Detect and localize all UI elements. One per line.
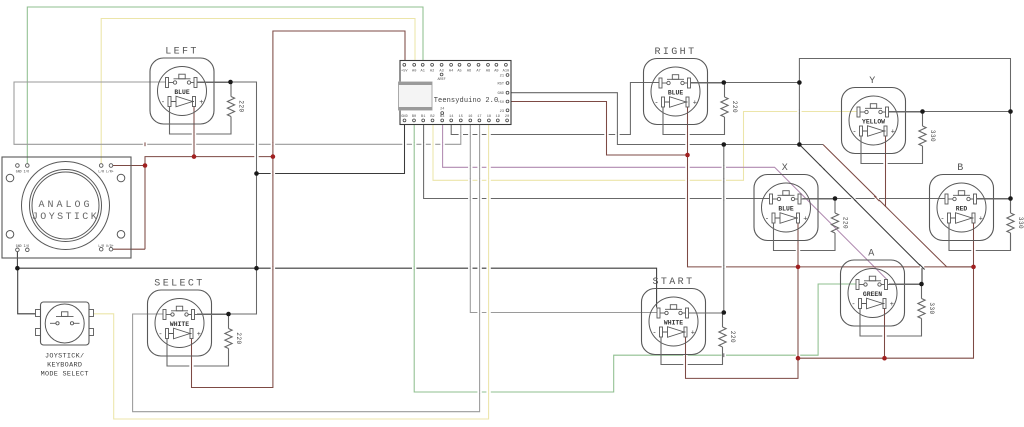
svg-text:START: START — [652, 277, 694, 288]
svg-text:220: 220 — [842, 217, 849, 229]
svg-text:BLUE: BLUE — [668, 90, 684, 97]
svg-text:330: 330 — [929, 130, 936, 142]
svg-text:220: 220 — [731, 101, 738, 113]
svg-text:330: 330 — [928, 302, 935, 314]
svg-text:A5: A5 — [457, 70, 461, 74]
svg-text:+: + — [979, 215, 983, 223]
svg-text:21: 21 — [500, 75, 504, 79]
svg-text:16: 16 — [468, 115, 472, 119]
svg-text:14: 14 — [449, 115, 453, 119]
svg-text:+: + — [890, 301, 894, 309]
svg-text:L/R L/R+: L/R L/R+ — [98, 170, 113, 174]
svg-text:X: X — [782, 163, 790, 174]
svg-text:+: + — [197, 331, 201, 339]
svg-text:A: A — [868, 249, 876, 260]
svg-text:B1: B1 — [421, 115, 425, 119]
svg-text:-: - — [158, 331, 162, 339]
svg-text:+: + — [691, 329, 695, 337]
svg-text:B2: B2 — [430, 115, 434, 119]
svg-text:GND: GND — [498, 92, 504, 96]
svg-text:GND: GND — [401, 115, 407, 119]
svg-text:B: B — [957, 163, 965, 174]
svg-text:WHITE: WHITE — [170, 321, 189, 328]
svg-text:LEFT: LEFT — [165, 47, 199, 58]
svg-text:Y: Y — [869, 76, 877, 87]
svg-text:-: - — [161, 99, 165, 107]
svg-text:GND I/O: GND I/O — [16, 170, 29, 174]
svg-text:JOYSTICK: JOYSTICK — [32, 212, 99, 223]
svg-text:RED: RED — [956, 206, 968, 213]
svg-text:19: 19 — [496, 115, 500, 119]
svg-text:+5V: +5V — [401, 70, 408, 74]
svg-text:A1: A1 — [421, 70, 425, 74]
svg-text:-: - — [852, 128, 856, 136]
svg-text:A7: A7 — [476, 70, 480, 74]
svg-text:18: 18 — [487, 115, 491, 119]
svg-text:A9: A9 — [494, 70, 498, 74]
svg-text:GND I/O: GND I/O — [16, 244, 29, 248]
svg-text:220: 220 — [729, 331, 736, 343]
svg-text:24: 24 — [440, 108, 444, 112]
svg-text:MODE SELECT: MODE SELECT — [41, 371, 89, 379]
svg-text:-: - — [940, 215, 944, 223]
svg-text:-: - — [851, 301, 855, 309]
svg-text:AREF: AREF — [438, 78, 446, 82]
svg-text:-: - — [652, 329, 656, 337]
svg-text:A10: A10 — [503, 70, 509, 74]
svg-text:330: 330 — [1017, 217, 1024, 229]
svg-text:23: 23 — [500, 110, 504, 114]
svg-text:SELECT: SELECT — [154, 279, 204, 290]
svg-text:-: - — [765, 215, 769, 223]
svg-text:WHITE: WHITE — [664, 320, 683, 327]
svg-text:-: - — [654, 99, 658, 107]
svg-text:220: 220 — [238, 100, 245, 112]
svg-text:+: + — [891, 128, 895, 136]
svg-text:+5V: +5V — [498, 101, 505, 105]
svg-text:+: + — [693, 99, 697, 107]
svg-text:BLUE: BLUE — [174, 89, 190, 96]
svg-text:20: 20 — [505, 115, 509, 119]
svg-text:15: 15 — [459, 115, 463, 119]
svg-text:B3: B3 — [440, 115, 444, 119]
svg-text:RIGHT: RIGHT — [654, 47, 696, 58]
svg-text:+: + — [199, 99, 203, 107]
svg-text:ANALOG: ANALOG — [38, 200, 92, 211]
svg-text:A2: A2 — [430, 70, 434, 74]
svg-text:220: 220 — [235, 332, 242, 344]
svg-text:A4: A4 — [449, 70, 453, 74]
svg-text:L/R U/D+: L/R U/D+ — [98, 244, 113, 248]
svg-text:GREEN: GREEN — [863, 291, 882, 298]
svg-text:BLUE: BLUE — [778, 206, 794, 213]
svg-text:RST: RST — [498, 83, 505, 87]
svg-text:17: 17 — [477, 115, 481, 119]
svg-text:A0: A0 — [412, 70, 416, 74]
svg-text:+: + — [803, 215, 807, 223]
svg-text:YELLOW: YELLOW — [862, 119, 885, 126]
svg-text:JOYSTICK/: JOYSTICK/ — [45, 353, 84, 361]
svg-text:B0: B0 — [412, 115, 416, 119]
svg-text:A6: A6 — [467, 70, 471, 74]
svg-text:KEYBOARD: KEYBOARD — [47, 362, 82, 370]
svg-text:Teensyduino 2.0: Teensyduino 2.0 — [434, 97, 499, 105]
svg-text:A8: A8 — [486, 70, 490, 74]
